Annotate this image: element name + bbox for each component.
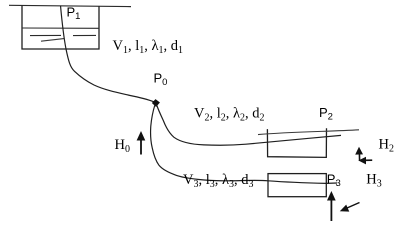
tank 1 water dash left [30, 34, 61, 36]
H3 diagonal arrow [347, 203, 360, 209]
svg-text:H3: H3 [366, 171, 381, 189]
tank 1 water dash right [73, 34, 96, 36]
pipe 2 curve from node P0 to reservoir 2 [157, 105, 342, 146]
svg-text:P1: P1 [67, 4, 81, 22]
H0 head arrow (up) [140, 139, 142, 155]
box 3 (pipe section) [268, 174, 326, 197]
svg-text:H0: H0 [115, 137, 130, 155]
H2 small up arrow [358, 153, 360, 161]
svg-text:P3: P3 [327, 171, 341, 189]
svg-text:P2: P2 [319, 105, 333, 123]
ground line above reservoir 1 [9, 5, 131, 6]
tank 1 water dash tilted [41, 39, 64, 42]
tank 1 water surface line [22, 27, 99, 29]
svg-text:H2: H2 [379, 137, 394, 155]
junction node P0 diamond [152, 100, 159, 107]
svg-text:V2, l2, λ2, d2: V2, l2, λ2, d2 [194, 106, 265, 124]
P3 outlet arrow (up) [330, 198, 332, 221]
reservoir tank 1 walls [22, 6, 99, 49]
svg-text:V1, l1, λ1, d1: V1, l1, λ1, d1 [113, 38, 184, 56]
pipe 3 curve from node P0 to box 3 outlet [151, 105, 337, 184]
svg-text:V3, l3, λ3, d3: V3, l3, λ3, d3 [183, 172, 254, 190]
H2 small left arrow [365, 159, 372, 161]
reservoir tank 2 walls [267, 128, 326, 157]
pipe 1 curve from tank 1 to node P0 [61, 6, 156, 103]
svg-text:P0: P0 [154, 71, 168, 89]
tank 2 water surface slanted line [258, 130, 359, 135]
